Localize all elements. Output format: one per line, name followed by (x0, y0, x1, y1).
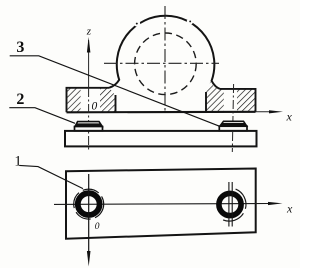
svg-text:x: x (286, 110, 293, 124)
left bolt centerline through nut and plate (88, 88, 90, 152)
outer arc gap dot upper-right (189, 20, 191, 22)
right hole vertical centerline a (228, 182, 230, 227)
svg-text:0: 0 (92, 101, 98, 113)
left nut on plate (75, 122, 102, 127)
outer arc gap upper-left (134, 20, 140, 26)
outer arc gap dot upper-left (136, 23, 138, 25)
z axis arrowhead (87, 37, 91, 53)
left hole vertical centerline (88, 174, 90, 252)
outer arc gap upper-right (187, 18, 193, 24)
right nut inner band (222, 123, 246, 126)
plate plan outline (66, 169, 256, 239)
right hole outer thin circle (spotface, partial) (223, 189, 246, 221)
bracket base bottom edge (thick) (67, 111, 256, 114)
right hole thick ring (219, 193, 241, 215)
vertical centerline of boss (164, 6, 166, 112)
left hole outer thin circle (74, 189, 104, 219)
plan y axis down arrowhead (87, 251, 91, 267)
left nut washer flange (75, 127, 103, 131)
right pad hatching right strip (237, 89, 256, 112)
plan x axis centerline through holes (54, 203, 270, 206)
plan x axis arrowhead (268, 202, 283, 205)
right nut washer flange (219, 126, 247, 131)
svg-text:0: 0 (95, 222, 100, 232)
left hole thick ring (78, 193, 100, 215)
left pad hatching left strip (67, 88, 81, 112)
right nut on plate (220, 121, 247, 126)
z axis line (88, 40, 90, 88)
svg-text:1: 1 (14, 153, 21, 169)
right hole vertical centerline b (231, 182, 233, 227)
svg-text:3: 3 (16, 39, 24, 56)
x axis arrowhead front (269, 110, 283, 113)
base plate front view (65, 131, 257, 147)
right bolt centerline (232, 84, 233, 152)
right pad outline (206, 89, 256, 112)
bearing boss outer arc with shoulder fillets (109, 16, 220, 89)
svg-text:z: z (86, 26, 92, 38)
horizontal centerline of boss (104, 62, 219, 64)
x axis of front view (256, 111, 273, 113)
leader line 3 (10, 56, 220, 127)
leader line 2 (9, 108, 75, 124)
leader line 1 (19, 165, 83, 188)
left pad hatching right strip (100, 88, 116, 112)
left pad outline (67, 88, 116, 113)
svg-text:2: 2 (16, 91, 24, 108)
left nut inner band (76, 123, 101, 126)
bore circle (hidden, dashed) (135, 33, 197, 95)
svg-text:x: x (286, 202, 293, 216)
right pad hatching left strip (206, 82, 224, 113)
